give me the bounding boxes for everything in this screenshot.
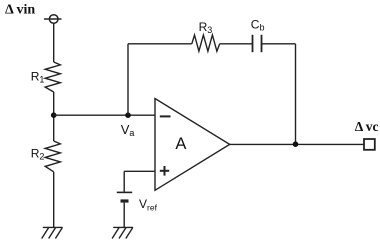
wire: [124, 170, 155, 172]
op-amp plus input: [160, 166, 169, 176]
terminal Δvin: [44, 15, 62, 24]
svg-text:Vref: Vref: [139, 197, 158, 213]
svg-text:R3: R3: [199, 20, 213, 35]
wire: [123, 171, 125, 192]
wire: [53, 172, 55, 228]
svg-text:Δ vin: Δ vin: [5, 3, 35, 18]
node (R1/R2 junction): [51, 112, 57, 118]
resistor R1: [45, 62, 60, 92]
wire: [262, 43, 296, 45]
terminal Δvc: [364, 139, 375, 150]
op-amp minus input: [160, 115, 171, 117]
node Va: [125, 112, 131, 118]
svg-text:Δ vc: Δ vc: [355, 119, 379, 134]
ground: [42, 227, 63, 238]
wire: [127, 44, 129, 115]
wire: [230, 143, 364, 145]
ground: [112, 227, 133, 238]
resistor R3: [192, 35, 220, 51]
wire: [123, 203, 125, 228]
wire: [128, 43, 192, 45]
wire: [220, 43, 253, 45]
battery Vref: [117, 192, 132, 201]
op-amp A: [155, 99, 230, 191]
resistor R2: [45, 141, 60, 172]
svg-text:Va: Va: [121, 122, 135, 138]
svg-text:R2: R2: [31, 147, 45, 162]
svg-text:Cb: Cb: [251, 18, 265, 33]
capacitor Cb: [253, 35, 262, 52]
node output: [293, 141, 299, 147]
wire: [53, 92, 55, 141]
svg-text:A: A: [175, 135, 186, 153]
wire: [54, 114, 155, 116]
svg-text:R1: R1: [31, 70, 45, 85]
wire: [295, 44, 297, 144]
wire: [53, 23, 55, 62]
